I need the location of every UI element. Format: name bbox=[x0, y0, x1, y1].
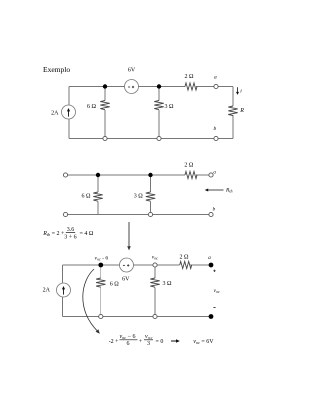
voltage source polarity marks (C3) bbox=[123, 264, 129, 266]
wire: C2 bottom wire bbox=[67, 214, 209, 216]
svg-text:b: b bbox=[213, 126, 216, 132]
svg-text:6: 6 bbox=[127, 341, 130, 347]
terminal a (C2, open) bbox=[209, 173, 213, 177]
svg-text:Exemplo: Exemplo bbox=[43, 65, 70, 74]
wire: C1 3ohm leads bbox=[158, 87, 160, 101]
wire: C1 top-left segment bbox=[69, 86, 125, 88]
wire: C3 2ohm to terminal a bbox=[190, 264, 211, 266]
current source I1 circle 2A bbox=[62, 105, 76, 119]
voltage source V1 polarity marks bbox=[128, 86, 134, 88]
resistor R 6ohm (C1) zigzag bbox=[100, 101, 109, 110]
wire: C2 6ohm leads bbox=[97, 175, 99, 192]
svg-text:6V: 6V bbox=[128, 68, 136, 74]
svg-text:2A: 2A bbox=[51, 110, 59, 116]
svg-text:2 Ω: 2 Ω bbox=[184, 162, 194, 168]
resistor 2ohm (C2) zigzag bbox=[185, 171, 197, 178]
voltage source V1 circle (C3) bbox=[120, 258, 134, 272]
svg-text:2 Ω: 2 Ω bbox=[185, 74, 195, 80]
resistor 3ohm (C2) zigzag bbox=[146, 192, 155, 201]
node: C2 bottom of 3ohm (open) bbox=[148, 212, 152, 216]
node: C2 top of 3ohm (filled) bbox=[148, 173, 152, 177]
svg-text:6 Ω: 6 Ω bbox=[110, 281, 120, 287]
label minus bbox=[213, 307, 215, 309]
svg-text:6 Ω: 6 Ω bbox=[82, 193, 92, 199]
node: C2 top of 6ohm (filled) bbox=[96, 173, 100, 177]
svg-text:= 0: = 0 bbox=[156, 339, 164, 345]
node: C2 left bottom terminal (open) bbox=[63, 212, 67, 216]
svg-text:3 Ω: 3 Ω bbox=[134, 193, 144, 199]
node voc-6 (filled) bbox=[98, 263, 103, 268]
current source arrow (C3) bbox=[62, 286, 65, 295]
node: C3 bottom of 6ohm (open) bbox=[99, 314, 103, 318]
current source I1 arrow bbox=[67, 108, 70, 117]
terminal a (C1, open) bbox=[214, 84, 218, 88]
wire: C1 top right to terminal a bbox=[196, 86, 214, 88]
resistor 6ohm (C3) zigzag bbox=[96, 278, 105, 287]
svg-text:2A: 2A bbox=[43, 288, 51, 294]
arrow (implies) bbox=[171, 339, 180, 342]
formula -2 + (voc-6)/6 + voc/3 = 0 -> voc = 6V bbox=[109, 334, 164, 347]
wire: C1 top middle segment bbox=[139, 86, 186, 88]
terminal b (C3, filled) bbox=[209, 314, 214, 319]
current arrow i bbox=[236, 87, 239, 95]
wire: C2 3ohm leads bbox=[150, 175, 152, 192]
resistor 3ohm (C3) zigzag bbox=[150, 278, 159, 287]
resistor 3ohm (C1) zigzag bbox=[154, 101, 163, 110]
wire: C3 top wire V source to voc node bbox=[134, 264, 154, 266]
svg-text:voc: voc bbox=[214, 288, 220, 294]
resistor 2ohm (C1) zigzag bbox=[185, 83, 197, 90]
wire: C1 bottom right segment bbox=[218, 138, 233, 140]
svg-text:= 4 Ω: = 4 Ω bbox=[80, 231, 94, 237]
wire: C1 bottom main segment bbox=[69, 138, 214, 140]
node: C1 bottom of 3ohm (open) bbox=[157, 136, 161, 140]
svg-text:3 + 6: 3 + 6 bbox=[64, 235, 76, 241]
svg-text:6 Ω: 6 Ω bbox=[87, 104, 97, 110]
svg-text:voc = 6V: voc = 6V bbox=[193, 339, 214, 345]
wire: C1 right edge down (R leads) bbox=[232, 87, 234, 107]
wire: C3 bottom wire bbox=[63, 316, 212, 318]
wire: C1 6ohm leads bbox=[104, 87, 106, 101]
terminal b (C2, open) bbox=[209, 212, 213, 216]
svg-text:voc: voc bbox=[145, 334, 153, 340]
resistor 6ohm (C2) zigzag bbox=[93, 192, 102, 201]
curved arrow (KCL at node voc-6) bbox=[83, 269, 100, 334]
svg-text:2 Ω: 2 Ω bbox=[180, 254, 190, 260]
terminal b (C1, open) bbox=[214, 136, 218, 140]
voltage source V1 circle 6V bbox=[125, 80, 139, 94]
wire: C3 6ohm leads bbox=[100, 265, 102, 278]
resistor R load (C1) zigzag bbox=[228, 106, 237, 116]
wire: C3 top voc node to 2ohm bbox=[157, 264, 180, 266]
formula Rth = 2 + 3.6/(3+6) = 4 ohm bbox=[42, 227, 94, 241]
svg-text:R: R bbox=[239, 108, 244, 114]
node: C2 left top terminal (open) bbox=[63, 173, 67, 177]
arrow Rth (pointing left) bbox=[205, 189, 224, 192]
current source I1 circle (C3) bbox=[57, 283, 71, 297]
svg-text:voc - 6: voc - 6 bbox=[95, 256, 109, 262]
node: C1 top of 6ohm (filled) bbox=[103, 84, 107, 88]
terminal a (C3, filled) bbox=[209, 263, 214, 268]
svg-text:3: 3 bbox=[147, 341, 150, 347]
svg-text:Rth: Rth bbox=[225, 188, 233, 194]
node voc (open) bbox=[153, 263, 157, 267]
svg-text:voc − 6: voc − 6 bbox=[120, 334, 136, 340]
wire: C2 top wire bbox=[67, 174, 185, 176]
svg-text:3 Ω: 3 Ω bbox=[165, 104, 175, 110]
label plus bbox=[213, 270, 215, 272]
svg-text:voc: voc bbox=[152, 255, 158, 261]
svg-text:Rth = 2 +: Rth = 2 + bbox=[42, 231, 65, 237]
node: C1 top of 3ohm (filled) bbox=[157, 84, 161, 88]
big down arrow bbox=[127, 222, 131, 250]
resistor 2ohm (C3) zigzag bbox=[180, 261, 192, 268]
svg-text:-2 +: -2 + bbox=[109, 339, 119, 345]
wire: C3 left edge bbox=[62, 265, 64, 283]
svg-text:6V: 6V bbox=[122, 277, 130, 283]
wire: C1 terminal a to right edge bbox=[218, 86, 233, 88]
node: C1 bottom of 6ohm (open) bbox=[103, 136, 107, 140]
node: C3 bottom of 3ohm (open) bbox=[153, 314, 157, 318]
svg-text:3.6: 3.6 bbox=[67, 227, 75, 233]
wire: C3 3ohm leads bbox=[154, 267, 156, 278]
svg-text:3 Ω: 3 Ω bbox=[163, 281, 173, 287]
wire: C1 left edge bbox=[68, 87, 70, 106]
wire: C3 top wire left of V source bbox=[63, 264, 120, 266]
svg-text:a: a bbox=[208, 255, 211, 261]
svg-text:a: a bbox=[214, 74, 217, 80]
